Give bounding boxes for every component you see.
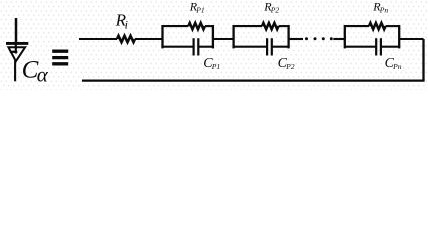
- resistor RPn zigzag: [369, 23, 386, 29]
- CPE element Ca: triangle outline: [8, 47, 25, 61]
- label CPn: [385, 56, 402, 71]
- wire: bottom return: [82, 79, 425, 81]
- svg-text:Pn: Pn: [379, 6, 389, 15]
- resistor RP1 zigzag: [188, 23, 205, 29]
- block3 top branch left wire: [345, 25, 369, 27]
- block2 bottom branch right wire: [272, 46, 288, 48]
- block1 right bar: [212, 25, 214, 48]
- label Ri: [115, 11, 128, 32]
- block1 top branch right wire: [205, 25, 213, 27]
- label RP2: [263, 0, 279, 15]
- svg-text:P2: P2: [285, 62, 295, 71]
- block2 top branch left wire: [234, 25, 262, 27]
- parallel block 1: left bar: [161, 25, 163, 48]
- label Ca: [22, 56, 49, 86]
- resistor RP2 zigzag: [262, 23, 279, 29]
- capacitor CPn plates: [376, 38, 381, 55]
- svg-text:Pn: Pn: [392, 62, 402, 71]
- capacitor CP2 plates: [267, 38, 272, 55]
- svg-text:i: i: [125, 17, 128, 31]
- label CP1: [203, 56, 220, 71]
- block2 top branch right wire: [279, 25, 289, 27]
- label CP2: [278, 56, 295, 71]
- capacitor CP1 plates: [194, 38, 199, 55]
- wire: right vertical return: [422, 39, 424, 81]
- CPE element Ca: top lead: [15, 18, 18, 44]
- wire: dots to block3: [333, 38, 345, 40]
- wire: Ri to block1: [135, 38, 163, 40]
- block1 top branch left wire: [163, 25, 189, 27]
- CPE element Ca: top plate bar: [6, 42, 28, 45]
- wire: top terminal lead: [79, 38, 117, 40]
- node dots (ellipsis between block2 and block3): [305, 37, 333, 40]
- block3 top branch right wire: [386, 25, 400, 27]
- svg-text:P1: P1: [195, 6, 204, 15]
- label RPn: [372, 0, 388, 15]
- block3 bottom branch right wire: [381, 46, 399, 48]
- wire: block2 to dots: [289, 38, 303, 40]
- parallel block 2: left bar: [232, 25, 234, 48]
- block1 bottom branch left wire: [163, 46, 194, 48]
- CPE element Ca: inner short bar: [10, 51, 17, 53]
- svg-text:α: α: [37, 63, 49, 87]
- block3 right bar: [398, 25, 400, 48]
- resistor Ri zigzag: [117, 36, 135, 42]
- label RP1: [189, 0, 205, 15]
- wire: block1 to block2: [213, 38, 234, 40]
- block2 right bar: [287, 25, 289, 48]
- equivalence symbol: [52, 51, 68, 64]
- parallel block 3: left bar: [344, 25, 346, 48]
- block2 bottom branch left wire: [234, 46, 267, 48]
- wire: block3 to right edge: [399, 38, 423, 40]
- svg-text:P1: P1: [211, 62, 220, 71]
- block1 bottom branch right wire: [199, 46, 213, 48]
- block3 bottom branch left wire: [345, 46, 376, 48]
- svg-text:P2: P2: [270, 6, 280, 15]
